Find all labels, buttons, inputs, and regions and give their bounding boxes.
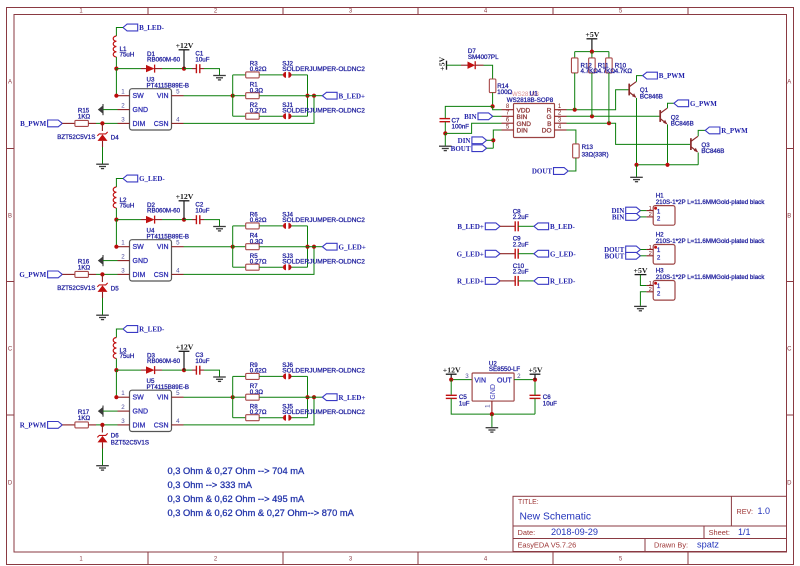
op-amp-ic U5 [130, 390, 172, 431]
transistor Q2 [659, 110, 661, 122]
svg-text:DIN: DIN [458, 137, 471, 145]
wire [636, 165, 638, 177]
wire [445, 106, 492, 118]
diode D1 [141, 68, 146, 70]
svg-text:D: D [787, 481, 792, 487]
svg-text:New Schematic: New Schematic [520, 512, 592, 523]
resistor R11 [591, 52, 593, 58]
svg-text:3: 3 [121, 267, 125, 274]
wire [96, 122, 118, 124]
svg-text:Drawn By:: Drawn By: [654, 540, 688, 549]
junction [182, 67, 186, 71]
svg-text:A: A [8, 80, 12, 86]
wire [259, 115, 282, 117]
svg-text:4: 4 [176, 267, 180, 274]
svg-text:100Ω: 100Ω [497, 89, 512, 96]
junction [533, 378, 537, 382]
resistor R4 [233, 246, 246, 248]
wire [233, 225, 246, 227]
wire [115, 57, 117, 69]
svg-text:2: 2 [121, 254, 125, 261]
svg-text:+5V: +5V [634, 266, 648, 275]
net port G_LED- [123, 175, 138, 182]
svg-text:BC846B: BC846B [671, 120, 694, 127]
net port DOUT [626, 246, 641, 253]
svg-text:1/1: 1/1 [738, 527, 751, 537]
svg-text:1KΩ: 1KΩ [78, 415, 91, 422]
svg-text:0.27Ω: 0.27Ω [250, 259, 267, 266]
net port R_PWM [705, 127, 720, 134]
net port G_PWM [48, 271, 63, 278]
wire [484, 65, 493, 79]
resistor R15 [62, 122, 75, 124]
wire [640, 292, 646, 306]
svg-text:G_LED-: G_LED- [550, 250, 576, 258]
svg-text:C: C [787, 347, 792, 353]
wire [259, 375, 282, 377]
resistor R14 [489, 79, 496, 93]
svg-text:BIN: BIN [612, 214, 624, 222]
wire R line [567, 90, 629, 110]
resistor R16 [62, 273, 75, 275]
svg-text:0.62Ω: 0.62Ω [250, 368, 267, 375]
wire [568, 158, 576, 171]
svg-text:SE8550-LF: SE8550-LF [489, 366, 521, 373]
svg-text:B_LED+: B_LED+ [339, 92, 366, 100]
svg-text:0.62Ω: 0.62Ω [250, 66, 267, 73]
ground [439, 145, 452, 147]
svg-text:G_LED+: G_LED+ [457, 250, 484, 258]
wire [184, 247, 315, 275]
svg-text:1: 1 [484, 404, 491, 408]
svg-text:10uF: 10uF [195, 56, 209, 63]
junction [114, 94, 118, 98]
wire [308, 246, 323, 248]
svg-text:D4: D4 [111, 134, 119, 141]
svg-text:DO: DO [542, 128, 552, 135]
svg-text:2: 2 [657, 215, 661, 222]
junction [100, 121, 104, 125]
net port B_LED+ [322, 92, 337, 99]
wire [233, 266, 246, 268]
net port B_LED- [534, 223, 549, 230]
wire [232, 226, 234, 267]
wire [116, 370, 117, 397]
junction [607, 121, 611, 125]
wire [116, 69, 117, 96]
svg-text:0,3 Ohm & 0,62 Ohm & 0,27 Ohm-: 0,3 Ohm & 0,62 Ohm & 0,27 Ohm--> 870 mA [168, 508, 355, 518]
svg-text:2: 2 [649, 287, 652, 293]
wire [698, 130, 705, 136]
svg-text:spatz: spatz [697, 540, 719, 550]
svg-text:VIN: VIN [157, 244, 169, 251]
pin stubs [118, 396, 130, 398]
ground [634, 305, 647, 307]
svg-text:GND: GND [133, 107, 149, 114]
wire [184, 96, 315, 124]
svg-text:A: A [787, 80, 791, 86]
svg-text:B: B [8, 214, 12, 220]
ground [213, 75, 226, 77]
wire [487, 139, 494, 141]
wire [518, 280, 534, 282]
net port B_PWM [48, 120, 63, 127]
svg-text:2.2uF: 2.2uF [513, 214, 529, 221]
pin stubs H3 [646, 285, 653, 287]
svg-text:GND: GND [133, 409, 149, 416]
net port BIN [626, 214, 641, 221]
svg-text:10uF: 10uF [195, 207, 209, 214]
diode D7 [461, 64, 468, 66]
svg-text:0.27Ω: 0.27Ω [250, 108, 267, 115]
wire [116, 329, 123, 338]
svg-text:2018-09-29: 2018-09-29 [551, 527, 598, 537]
junction [491, 104, 495, 108]
svg-text:33Ω(33R): 33Ω(33R) [582, 151, 609, 158]
wire [233, 115, 246, 117]
capacitor C3 [195, 366, 197, 375]
junction [305, 94, 309, 98]
wire [184, 396, 233, 398]
svg-text:0.27Ω: 0.27Ω [250, 409, 267, 416]
junction [312, 94, 316, 98]
net port G_LED+ [322, 243, 337, 250]
wire [292, 375, 308, 377]
svg-text:5: 5 [176, 390, 180, 397]
pin stubs [118, 95, 130, 97]
svg-text:75uH: 75uH [120, 52, 135, 59]
svg-text:2: 2 [657, 290, 661, 297]
wire [204, 220, 220, 227]
svg-text:2: 2 [121, 404, 125, 411]
power +12V [183, 351, 185, 370]
svg-text:0.3Ω: 0.3Ω [250, 238, 264, 245]
svg-text:SOLDERJUMPER-OLDNC2: SOLDERJUMPER-OLDNC2 [282, 108, 365, 115]
svg-text:4.7KΩ: 4.7KΩ [581, 68, 599, 75]
wire [116, 68, 141, 70]
svg-text:OUT: OUT [497, 378, 513, 385]
wire [184, 397, 315, 425]
svg-text:B_PWM: B_PWM [20, 120, 46, 128]
svg-text:1uF: 1uF [459, 400, 470, 407]
svg-text:B_LED-: B_LED- [550, 223, 576, 231]
wire [591, 73, 593, 116]
inductor L2 [113, 187, 116, 208]
svg-text:210S-1*2P L=11.6MMGold-plated: 210S-1*2P L=11.6MMGold-plated black [656, 199, 766, 206]
wire [96, 424, 118, 426]
wire [307, 376, 309, 417]
net port R_LED- [123, 326, 138, 333]
solder jumper SJ6 [283, 375, 285, 377]
wire [574, 73, 576, 110]
wire [451, 398, 535, 414]
svg-text:R13: R13 [582, 144, 594, 151]
svg-text:G_LED+: G_LED+ [339, 243, 366, 251]
inductor L1 [113, 36, 116, 57]
svg-text:4: 4 [176, 418, 180, 425]
wire [534, 398, 536, 414]
wire [640, 255, 646, 257]
svg-text:CSN: CSN [154, 272, 169, 279]
resistor R3 [246, 72, 260, 78]
svg-text:BZT52C5V1S: BZT52C5V1S [111, 439, 149, 446]
resistor R17 [62, 424, 75, 426]
capacitor C7 [440, 118, 451, 120]
wire [487, 147, 494, 149]
svg-text:2.2uF: 2.2uF [513, 269, 529, 276]
ground [213, 376, 226, 378]
svg-text:1: 1 [649, 206, 652, 212]
junction [114, 395, 118, 399]
capacitor C10 [500, 280, 515, 282]
net port B_PWM [643, 72, 658, 79]
ground [213, 226, 226, 228]
junction [114, 218, 118, 222]
svg-text:1: 1 [121, 240, 125, 247]
svg-text:BZT52C5V1S: BZT52C5V1S [57, 285, 95, 292]
ground [102, 255, 104, 266]
wire [102, 147, 104, 164]
svg-text:SW: SW [133, 395, 145, 402]
svg-text:3: 3 [465, 373, 469, 380]
svg-text:RB060M-60: RB060M-60 [147, 358, 181, 365]
wire [184, 68, 192, 70]
wire [184, 246, 233, 248]
wire [667, 124, 669, 164]
junction [443, 131, 447, 135]
svg-text:PT4115B89E-B: PT4115B89E-B [147, 233, 190, 240]
svg-text:B_PWM: B_PWM [659, 72, 685, 80]
capacitor C1 [195, 64, 197, 73]
capacitor C6 [530, 394, 541, 396]
capacitor C9 [500, 253, 515, 255]
junction [114, 67, 118, 71]
net port DOUT [554, 168, 569, 175]
wire [492, 93, 494, 107]
junction [491, 138, 495, 142]
svg-text:BC846B: BC846B [701, 148, 724, 155]
wire [162, 68, 184, 70]
diode D2 [141, 219, 146, 221]
svg-text:GND: GND [490, 384, 497, 400]
wire [116, 28, 123, 37]
svg-text:BIN: BIN [464, 113, 476, 121]
svg-text:CSN: CSN [154, 121, 169, 128]
power +12V [450, 374, 452, 379]
capacitor C8 [500, 225, 515, 227]
junction [100, 272, 104, 276]
resistor R13 [573, 144, 580, 158]
resistor R12 [574, 52, 576, 58]
net port B_LED- [123, 24, 138, 31]
svg-text:BC846B: BC846B [640, 93, 663, 100]
svg-text:1: 1 [657, 208, 661, 215]
net port R_LED- [534, 278, 549, 285]
svg-text:100nF: 100nF [452, 123, 470, 130]
wire [184, 369, 192, 371]
svg-text:CSN: CSN [154, 422, 169, 429]
wire [115, 359, 117, 371]
svg-text:+5V: +5V [529, 366, 543, 375]
transistor Q3 [690, 138, 692, 150]
svg-text:VIN: VIN [474, 378, 486, 385]
wire [292, 266, 308, 268]
wire [640, 210, 646, 212]
wire [184, 219, 192, 221]
power +12V [183, 50, 185, 69]
svg-text:0,3 Ohm & 0,62 Ohm --> 495 mA: 0,3 Ohm & 0,62 Ohm --> 495 mA [168, 494, 305, 504]
svg-text:0,3 Ohm --> 333 mA: 0,3 Ohm --> 333 mA [168, 480, 253, 490]
svg-text:2: 2 [121, 103, 125, 110]
net port G_LED+ [485, 250, 500, 257]
wire [608, 73, 610, 123]
wire [103, 410, 118, 412]
svg-text:1.0: 1.0 [758, 506, 771, 516]
svg-text:G_PWM: G_PWM [690, 100, 717, 108]
wire G line [567, 115, 660, 117]
svg-text:PT4115B89E-B: PT4115B89E-B [147, 82, 190, 89]
svg-text:SOLDERJUMPER-OLDNC2: SOLDERJUMPER-OLDNC2 [282, 259, 365, 266]
net port DIN [472, 137, 487, 144]
svg-text:2: 2 [649, 251, 652, 257]
inductor L3 [113, 338, 116, 359]
svg-text:0.62Ω: 0.62Ω [250, 217, 267, 224]
svg-text:B_LED-: B_LED- [139, 24, 165, 32]
resistor R6 [246, 223, 260, 229]
svg-text:75uH: 75uH [120, 353, 135, 360]
pin stubs [118, 246, 130, 248]
svg-text:R_LED-: R_LED- [139, 326, 165, 334]
wire [451, 379, 472, 381]
capacitor C2 [195, 215, 197, 224]
svg-text:REV:: REV: [737, 507, 754, 516]
op-amp-ic U4 [130, 240, 172, 281]
wire [636, 98, 638, 165]
svg-text:SOLDERJUMPER-OLDNC2: SOLDERJUMPER-OLDNC2 [282, 66, 365, 73]
junction [665, 163, 669, 167]
svg-text:Sheet:: Sheet: [709, 528, 730, 537]
svg-text:210S-1*2P L=11.6MMGold-plated: 210S-1*2P L=11.6MMGold-plated black [656, 274, 766, 281]
svg-text:4.7KΩ: 4.7KΩ [598, 68, 616, 75]
wire [259, 417, 282, 419]
junction [182, 218, 186, 222]
diode D3 [141, 369, 146, 371]
pin stubs H2 [646, 249, 653, 251]
junction [231, 94, 235, 98]
svg-text:R_PWM: R_PWM [721, 127, 748, 135]
svg-text:BOUT: BOUT [451, 145, 471, 153]
wire [308, 396, 323, 398]
wire [514, 379, 535, 381]
svg-text:1: 1 [657, 247, 661, 254]
wire [668, 103, 674, 108]
wire [534, 380, 536, 396]
svg-text:+5V: +5V [438, 56, 447, 70]
power +5V [534, 374, 536, 379]
wire [204, 370, 220, 377]
wire [640, 275, 646, 286]
wire [445, 123, 501, 133]
svg-text:2.2uF: 2.2uF [513, 241, 529, 248]
svg-text:B_LED+: B_LED+ [457, 223, 484, 231]
pin stubs H1 [646, 210, 653, 212]
svg-text:3: 3 [121, 116, 125, 123]
junction [182, 368, 186, 372]
wire [232, 75, 234, 116]
svg-text:SOLDERJUMPER-OLDNC2: SOLDERJUMPER-OLDNC2 [282, 217, 365, 224]
svg-text:2: 2 [657, 254, 661, 261]
svg-text:RB060M-60: RB060M-60 [147, 208, 181, 215]
junction [114, 245, 118, 249]
net port DIN [626, 207, 641, 214]
wire [233, 74, 246, 76]
svg-text:R_LED-: R_LED- [550, 278, 576, 286]
net port BOUT [472, 145, 487, 152]
junction [100, 423, 104, 427]
wire emitter rail [637, 164, 699, 166]
ground [96, 465, 109, 467]
resistor R7 [233, 396, 246, 398]
wire [518, 253, 534, 255]
wire [493, 106, 502, 109]
svg-text:D5: D5 [111, 285, 119, 292]
svg-text:75uH: 75uH [120, 203, 135, 210]
wire [162, 369, 184, 371]
ground [96, 314, 109, 316]
svg-text:EasyEDA V5.7.26: EasyEDA V5.7.26 [518, 540, 577, 549]
wire [204, 69, 220, 76]
svg-text:DIM: DIM [133, 121, 146, 128]
solder jumper SJ1 [283, 115, 285, 117]
svg-text:BZT52C5V1S: BZT52C5V1S [57, 134, 95, 141]
svg-text:C: C [8, 347, 13, 353]
resistor R2 [246, 113, 260, 119]
ground [96, 163, 109, 165]
wire [491, 414, 493, 427]
wire [575, 51, 609, 53]
capacitor C5 [450, 380, 452, 395]
svg-text:DIM: DIM [133, 422, 146, 429]
junction [490, 412, 494, 416]
wire [292, 115, 308, 117]
resistor R1 [233, 95, 246, 97]
net port B_LED+ [485, 223, 500, 230]
svg-text:1KΩ: 1KΩ [78, 113, 91, 120]
svg-text:Date:: Date: [518, 528, 536, 537]
svg-text:DIN: DIN [517, 128, 529, 135]
svg-text:+12V: +12V [176, 343, 194, 352]
junction [114, 368, 118, 372]
svg-text:1: 1 [649, 245, 652, 251]
svg-text:DOUT: DOUT [532, 168, 553, 176]
ground [486, 427, 499, 429]
svg-text:SW: SW [133, 244, 145, 251]
svg-text:1KΩ: 1KΩ [78, 264, 91, 271]
net port G_LED- [534, 250, 549, 257]
wire [493, 130, 501, 148]
wire [116, 179, 123, 188]
svg-text:1: 1 [649, 281, 652, 287]
svg-text:B: B [787, 214, 791, 220]
svg-text:SOLDERJUMPER-OLDNC2: SOLDERJUMPER-OLDNC2 [282, 368, 365, 375]
svg-text:10uF: 10uF [195, 358, 209, 365]
svg-text:D: D [8, 481, 13, 487]
solder jumper SJ4 [283, 225, 285, 227]
wire [102, 449, 104, 466]
net port BOUT [626, 252, 641, 259]
svg-text:SW: SW [133, 93, 145, 100]
svg-text:VIN: VIN [157, 93, 169, 100]
